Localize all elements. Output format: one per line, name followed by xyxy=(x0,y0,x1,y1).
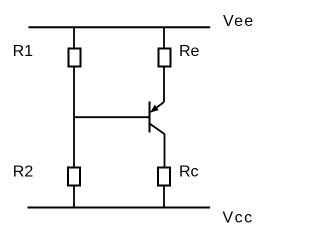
transistor Q1 xyxy=(150,102,165,135)
resistor R2 xyxy=(68,168,80,186)
svg-text:R1: R1 xyxy=(13,43,34,60)
resistor Re xyxy=(159,49,171,67)
svg-text:R2: R2 xyxy=(13,163,34,180)
wire xyxy=(163,186,165,208)
svg-text:Re: Re xyxy=(179,43,200,60)
Vee rail xyxy=(28,26,210,28)
resistor R1 xyxy=(69,49,81,67)
wire xyxy=(163,27,165,48)
wire xyxy=(163,67,165,103)
svg-text:Vcc: Vcc xyxy=(223,210,254,227)
wire xyxy=(164,134,166,168)
wire xyxy=(73,27,75,207)
resistor Rc xyxy=(158,168,170,186)
Vcc rail xyxy=(28,207,211,209)
svg-text:Rc: Rc xyxy=(179,164,199,181)
wire xyxy=(74,116,150,118)
svg-text:Vee: Vee xyxy=(223,13,255,30)
